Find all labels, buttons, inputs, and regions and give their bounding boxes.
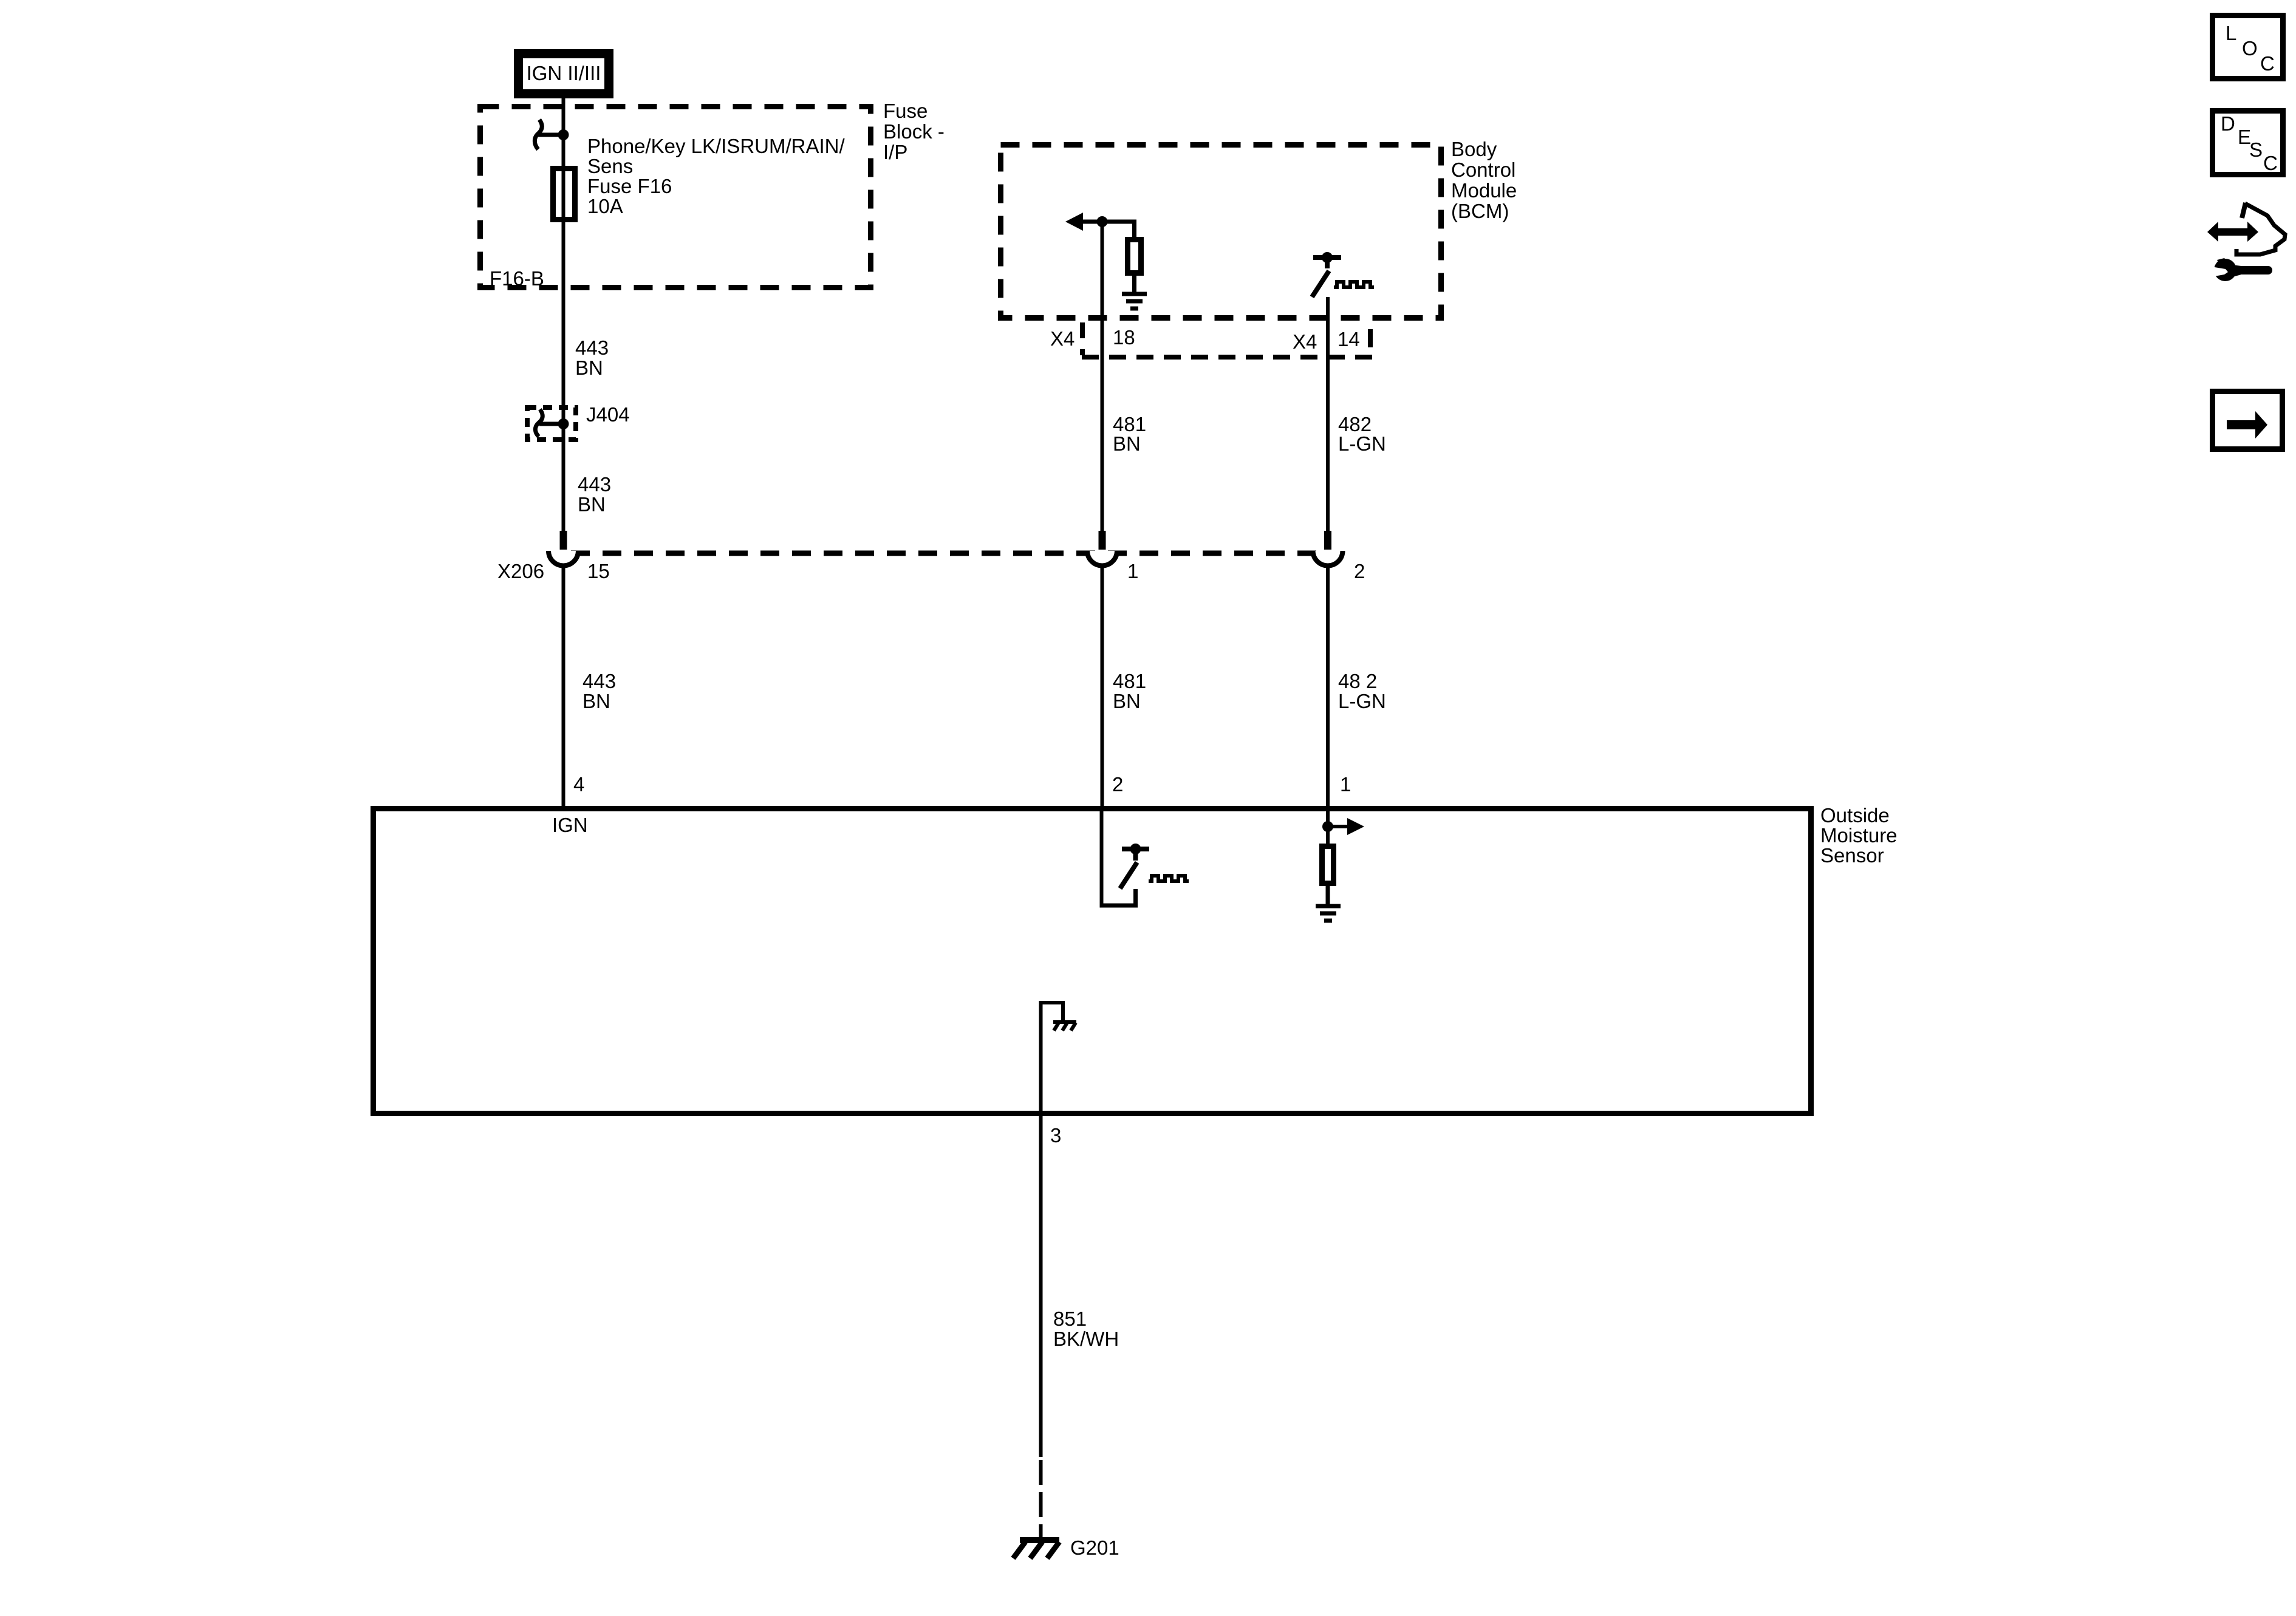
X206 pin 2 connector (pin bar + cup) xyxy=(1313,531,1343,566)
connector X4 bracket under BCM xyxy=(1081,322,1372,357)
wire label 443 BN (above J404) xyxy=(575,336,609,379)
svg-text:F16-B: F16-B xyxy=(490,267,544,290)
sidebar next-page arrow box xyxy=(2213,392,2283,449)
svg-text:G201: G201 xyxy=(1070,1536,1119,1559)
svg-text:Outside: Outside xyxy=(1820,804,1890,827)
svg-text:Fuse: Fuse xyxy=(883,100,928,122)
label Fuse Block - I/P xyxy=(883,100,945,163)
wire from X206 pin2 to sensor pin 1 xyxy=(1326,564,1330,808)
fuse block dashed box (Fuse Block - I/P) xyxy=(480,107,871,288)
svg-text:1: 1 xyxy=(1127,560,1138,582)
label Body Control Module (BCM) xyxy=(1451,138,1517,222)
wire label 482 L-GN (upper) xyxy=(1338,413,1386,455)
sidebar vehicle icon with double arrow xyxy=(2207,203,2285,254)
svg-text:443: 443 xyxy=(578,473,611,496)
svg-text:481: 481 xyxy=(1113,670,1146,692)
label Phone/Key LK/ISRUM/RAIN/ Sens Fuse F16 10A xyxy=(587,135,845,217)
svg-text:4: 4 xyxy=(573,773,584,796)
sidebar DESC box xyxy=(2213,111,2283,175)
svg-text:Control: Control xyxy=(1451,159,1515,181)
svg-text:(BCM): (BCM) xyxy=(1451,200,1509,222)
sensor internal switch (pin 2) xyxy=(1100,811,1189,907)
fuse F16 10A xyxy=(553,169,575,220)
svg-text:C: C xyxy=(2263,152,2278,174)
BCM internal switch (solid state, pin 14) xyxy=(1312,252,1374,297)
svg-text:10A: 10A xyxy=(587,195,623,217)
sensor internal resistor + arrow (pin 1) xyxy=(1322,811,1365,906)
svg-text:L-GN: L-GN xyxy=(1338,690,1386,712)
X206 pin 15 connector (pin bar + cup) xyxy=(548,531,578,566)
svg-text:S: S xyxy=(2249,138,2263,161)
svg-text:48 2: 48 2 xyxy=(1338,670,1377,692)
svg-text:X206: X206 xyxy=(497,560,544,582)
svg-text:O: O xyxy=(2242,37,2258,60)
svg-text:BN: BN xyxy=(1113,432,1141,455)
sensor internal ground (pin 1 branch) xyxy=(1316,906,1341,921)
svg-text:443: 443 xyxy=(575,336,609,359)
junction dot BCM pin18 node xyxy=(1097,216,1108,227)
svg-text:3: 3 xyxy=(1050,1124,1061,1147)
svg-text:1: 1 xyxy=(1340,773,1351,796)
svg-text:X4: X4 xyxy=(1050,327,1075,350)
svg-text:I/P: I/P xyxy=(883,141,907,163)
svg-text:Block -: Block - xyxy=(883,120,945,143)
svg-text:Body: Body xyxy=(1451,138,1497,160)
bus-bar squiggle in fuse block xyxy=(535,120,563,149)
connector X206 dashed line xyxy=(571,551,1318,556)
splice J404 dashed box xyxy=(527,407,576,440)
svg-text:18: 18 xyxy=(1113,326,1135,349)
svg-text:L-GN: L-GN xyxy=(1338,432,1386,455)
svg-text:IGN: IGN xyxy=(552,814,588,836)
svg-text:BK/WH: BK/WH xyxy=(1053,1328,1119,1350)
svg-text:Fuse F16: Fuse F16 xyxy=(587,175,672,197)
svg-text:BN: BN xyxy=(575,356,603,379)
svg-text:443: 443 xyxy=(583,670,616,692)
Outside Moisture Sensor box xyxy=(374,809,1811,1114)
wire label 48 2 L-GN (lower) xyxy=(1338,670,1386,712)
wire label 481 BN (lower) xyxy=(1113,670,1146,712)
wire label 443 BN (below J404) xyxy=(578,473,611,516)
svg-text:851: 851 xyxy=(1053,1307,1087,1330)
sidebar LOC box xyxy=(2213,16,2283,79)
svg-text:IGN II/III: IGN II/III xyxy=(527,62,601,84)
svg-text:X4: X4 xyxy=(1293,330,1317,353)
dashed wire to G201 xyxy=(1039,1460,1043,1540)
wire label 443 BN (lower) xyxy=(583,670,616,712)
splice squiggle J404 xyxy=(535,409,563,437)
wire BCM pin 18 down to X206 pin 1 xyxy=(1101,222,1104,531)
wire 443 BN from X206 to sensor pin 4 xyxy=(562,564,565,808)
power label IGN II/III box xyxy=(519,54,609,94)
junction dot at fuse feed xyxy=(558,129,569,140)
svg-text:Sensor: Sensor xyxy=(1820,844,1884,867)
junction dot J404 xyxy=(558,418,569,429)
svg-text:14: 14 xyxy=(1338,328,1360,350)
BCM internal resistor xyxy=(1128,240,1141,295)
BCM internal ground xyxy=(1122,294,1147,309)
svg-text:Sens: Sens xyxy=(587,155,633,177)
label Outside Moisture Sensor xyxy=(1820,804,1898,867)
sensor internal chassis ground (pin 3) xyxy=(1039,1001,1077,1114)
svg-text:2: 2 xyxy=(1354,560,1365,582)
wire label 481 BN (upper) xyxy=(1113,413,1146,455)
svg-text:2: 2 xyxy=(1112,773,1123,796)
svg-text:C: C xyxy=(2260,52,2275,75)
wire BCM pin 14 down to X206 pin 2 xyxy=(1326,297,1330,531)
svg-text:Phone/Key LK/ISRUM/RAIN/: Phone/Key LK/ISRUM/RAIN/ xyxy=(587,135,845,157)
wire: IGN to fuse to X206 xyxy=(562,94,565,531)
svg-text:BN: BN xyxy=(1113,690,1141,712)
wire from X206 pin1 to sensor pin 2 xyxy=(1101,564,1104,808)
BCM internal arrow (signal out) xyxy=(1065,213,1135,237)
Body Control Module dashed box xyxy=(1001,145,1441,318)
svg-text:15: 15 xyxy=(587,560,610,582)
svg-text:BN: BN xyxy=(583,690,610,712)
wire 851 BK/WH xyxy=(1039,1116,1043,1457)
wire label 851 BK/WH xyxy=(1053,1307,1119,1350)
X206 pin 1 connector (pin bar + cup) xyxy=(1087,531,1117,566)
svg-text:L: L xyxy=(2226,22,2236,44)
svg-text:BN: BN xyxy=(578,493,606,516)
svg-text:D: D xyxy=(2221,112,2235,135)
ground G201 xyxy=(1013,1540,1059,1558)
svg-text:Moisture: Moisture xyxy=(1820,824,1898,847)
svg-text:Module: Module xyxy=(1451,179,1517,202)
svg-text:J404: J404 xyxy=(586,403,630,426)
sidebar wrench icon xyxy=(2211,258,2272,281)
